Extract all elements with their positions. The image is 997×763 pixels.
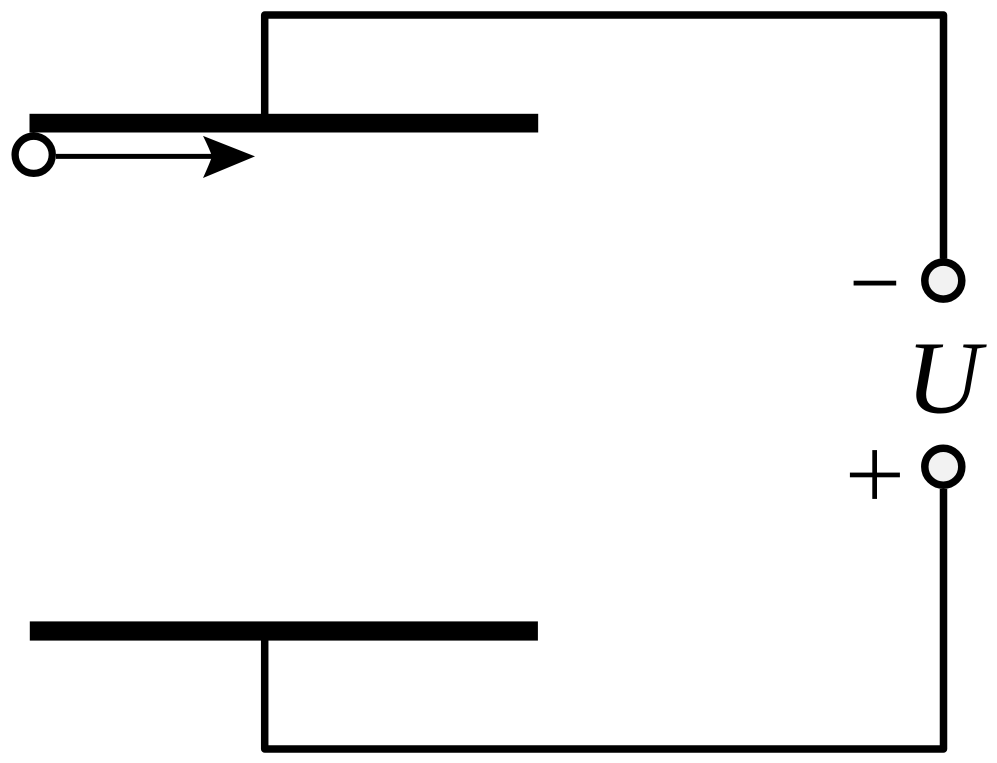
wire from positive terminal down, across, and up to bottom plate [265, 489, 944, 749]
capacitor bottom plate [30, 621, 538, 640]
negative terminal circle [925, 262, 962, 299]
plus sign [850, 473, 900, 478]
arrow shaft (plate motion direction) [56, 154, 215, 159]
arrowhead [203, 136, 255, 178]
minus sign [854, 281, 897, 286]
svg-text:U: U [906, 321, 987, 436]
positive terminal circle [925, 448, 962, 485]
wire from top plate up, across, and down to negative terminal [265, 15, 944, 259]
capacitor top plate (movable) [30, 114, 539, 133]
pivot circle at left end of top plate [15, 136, 52, 173]
